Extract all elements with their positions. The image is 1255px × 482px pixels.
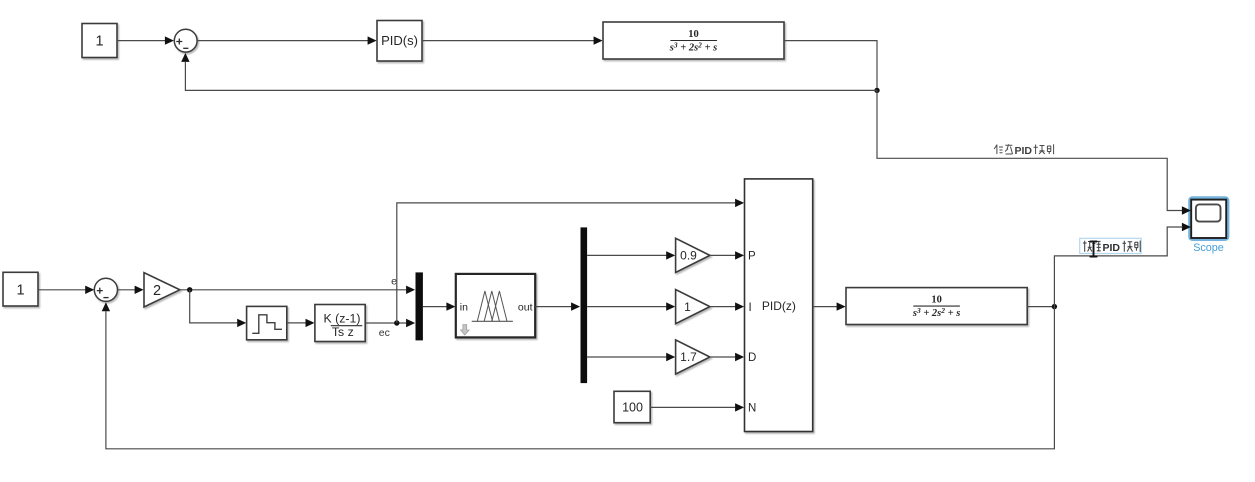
mux block Mux bbox=[416, 272, 423, 340]
wire Gain to Mux input e bbox=[180, 286, 415, 294]
constant block (100) bbox=[614, 391, 650, 422]
junction dot on ec wire bbox=[394, 320, 399, 325]
PID controller block PID(z) bbox=[745, 179, 813, 432]
svg-text:1: 1 bbox=[16, 282, 24, 298]
svg-text:1.7: 1.7 bbox=[680, 350, 697, 364]
wire Zero-Order Hold to Discrete Derivative bbox=[287, 319, 315, 327]
wire Transfer Fcn1 to junction bbox=[1027, 306, 1054, 308]
mouse I-beam text cursor bbox=[1090, 242, 1096, 257]
wire PID(s) to Transfer Fcn bbox=[422, 36, 603, 44]
svg-text:Ts z: Ts z bbox=[332, 325, 354, 339]
wire Mux to Fuzzy Logic Controller bbox=[423, 302, 456, 310]
wire ec branch up to PID(z) top input bbox=[397, 199, 744, 323]
gain block (1.7) bbox=[676, 340, 710, 374]
svg-text:2: 2 bbox=[153, 283, 161, 299]
gain block (0.9) bbox=[676, 238, 710, 272]
scope input port 1 arrow bbox=[1182, 206, 1191, 214]
wire feedback bottom loop to Sum1 bbox=[102, 302, 1055, 449]
svg-text:N: N bbox=[748, 403, 756, 415]
wire Constant to Sum bbox=[117, 36, 174, 44]
svg-text:1: 1 bbox=[684, 300, 691, 314]
wire Demux out3 to Gain 1.7 bbox=[587, 353, 675, 361]
gain block (1) bbox=[676, 290, 710, 324]
svg-text:PID(z): PID(z) bbox=[762, 299, 796, 313]
wire Constant 100 to PID(z) N port bbox=[650, 403, 744, 411]
fuzzy logic controller block bbox=[456, 274, 535, 338]
wire junction to Scope input 1 bbox=[877, 90, 1182, 210]
svg-text:1: 1 bbox=[95, 34, 103, 50]
wire Gain 0.9 to PID(z) P port bbox=[710, 251, 744, 259]
svg-text:Scope: Scope bbox=[1193, 242, 1224, 254]
wire PID(z) to Transfer Fcn1 bbox=[813, 302, 846, 310]
PID controller block PID(s) bbox=[377, 21, 422, 62]
wire Fuzzy Logic Controller to Demux bbox=[535, 302, 580, 310]
svg-text:D: D bbox=[748, 352, 756, 364]
wire Discrete Derivative to Mux input ec bbox=[365, 319, 415, 327]
demux block Demux bbox=[581, 227, 588, 383]
svg-text:e: e bbox=[391, 276, 397, 288]
svg-text:K (z-1): K (z-1) bbox=[324, 312, 361, 326]
constant block Constant1 (value 1, bottom loop) bbox=[3, 272, 38, 306]
svg-text:100: 100 bbox=[622, 400, 643, 414]
svg-text:in: in bbox=[460, 301, 468, 313]
svg-text:10: 10 bbox=[931, 295, 942, 306]
constant block Constant (value 1, top loop) bbox=[82, 24, 117, 58]
svg-text:PID: PID bbox=[1015, 145, 1033, 157]
junction dot (bottom loop branch) bbox=[1052, 304, 1057, 309]
svg-text:out: out bbox=[518, 301, 533, 313]
svg-text:P: P bbox=[748, 251, 756, 263]
signal label edit box 模糊PID控制 (fuzzy PID control, being edited) bbox=[1080, 238, 1142, 256]
sum junction Sum1 (bottom, +-) bbox=[94, 278, 117, 301]
transfer function block Transfer Fcn1 10/(s^3+2s^2+s) (bottom) bbox=[846, 288, 1027, 325]
sum junction Sum (top, +-) bbox=[174, 29, 197, 52]
wire Gain 1.7 to PID(z) D port bbox=[710, 353, 744, 361]
svg-text:PID: PID bbox=[1103, 242, 1121, 254]
wire Demux out1 to Gain 0.9 bbox=[587, 251, 675, 259]
wire Sum1 to Gain 2 bbox=[118, 286, 144, 294]
wire Transfer Fcn output right then down to junction bbox=[784, 41, 877, 91]
wire junction to Scope input 2 bbox=[1054, 227, 1182, 307]
gain block Gain (2) bbox=[144, 273, 180, 307]
wire Gain 1 to PID(z) I port bbox=[710, 302, 744, 310]
svg-text:ec: ec bbox=[379, 327, 390, 339]
svg-text:PID(s): PID(s) bbox=[381, 33, 418, 48]
wire Sum to PID(s) bbox=[197, 36, 377, 44]
wire Demux out2 to Gain 1 bbox=[587, 302, 675, 310]
svg-text:10: 10 bbox=[688, 29, 699, 40]
svg-text:I: I bbox=[749, 302, 752, 314]
svg-text:0.9: 0.9 bbox=[680, 249, 697, 263]
zero-order hold block bbox=[247, 306, 287, 339]
transfer function block Transfer Fcn 10/(s^3+2s^2+s) (top) bbox=[603, 22, 784, 59]
wire feedback to top Sum bbox=[181, 53, 877, 91]
junction dot (top loop branch) bbox=[874, 88, 879, 93]
wire branch down to Zero-Order Hold bbox=[190, 290, 247, 327]
signal label 传统PID控制 (classic PID control) bbox=[994, 144, 1053, 157]
discrete derivative block K(z-1)/Tsz bbox=[315, 305, 365, 342]
scope block Scope (selected, blue highlight) bbox=[1190, 198, 1228, 240]
wire Constant1 to Sum1 bbox=[38, 286, 94, 294]
junction dot (gain output branch) bbox=[187, 287, 192, 292]
scope input port 2 arrow bbox=[1182, 223, 1191, 231]
